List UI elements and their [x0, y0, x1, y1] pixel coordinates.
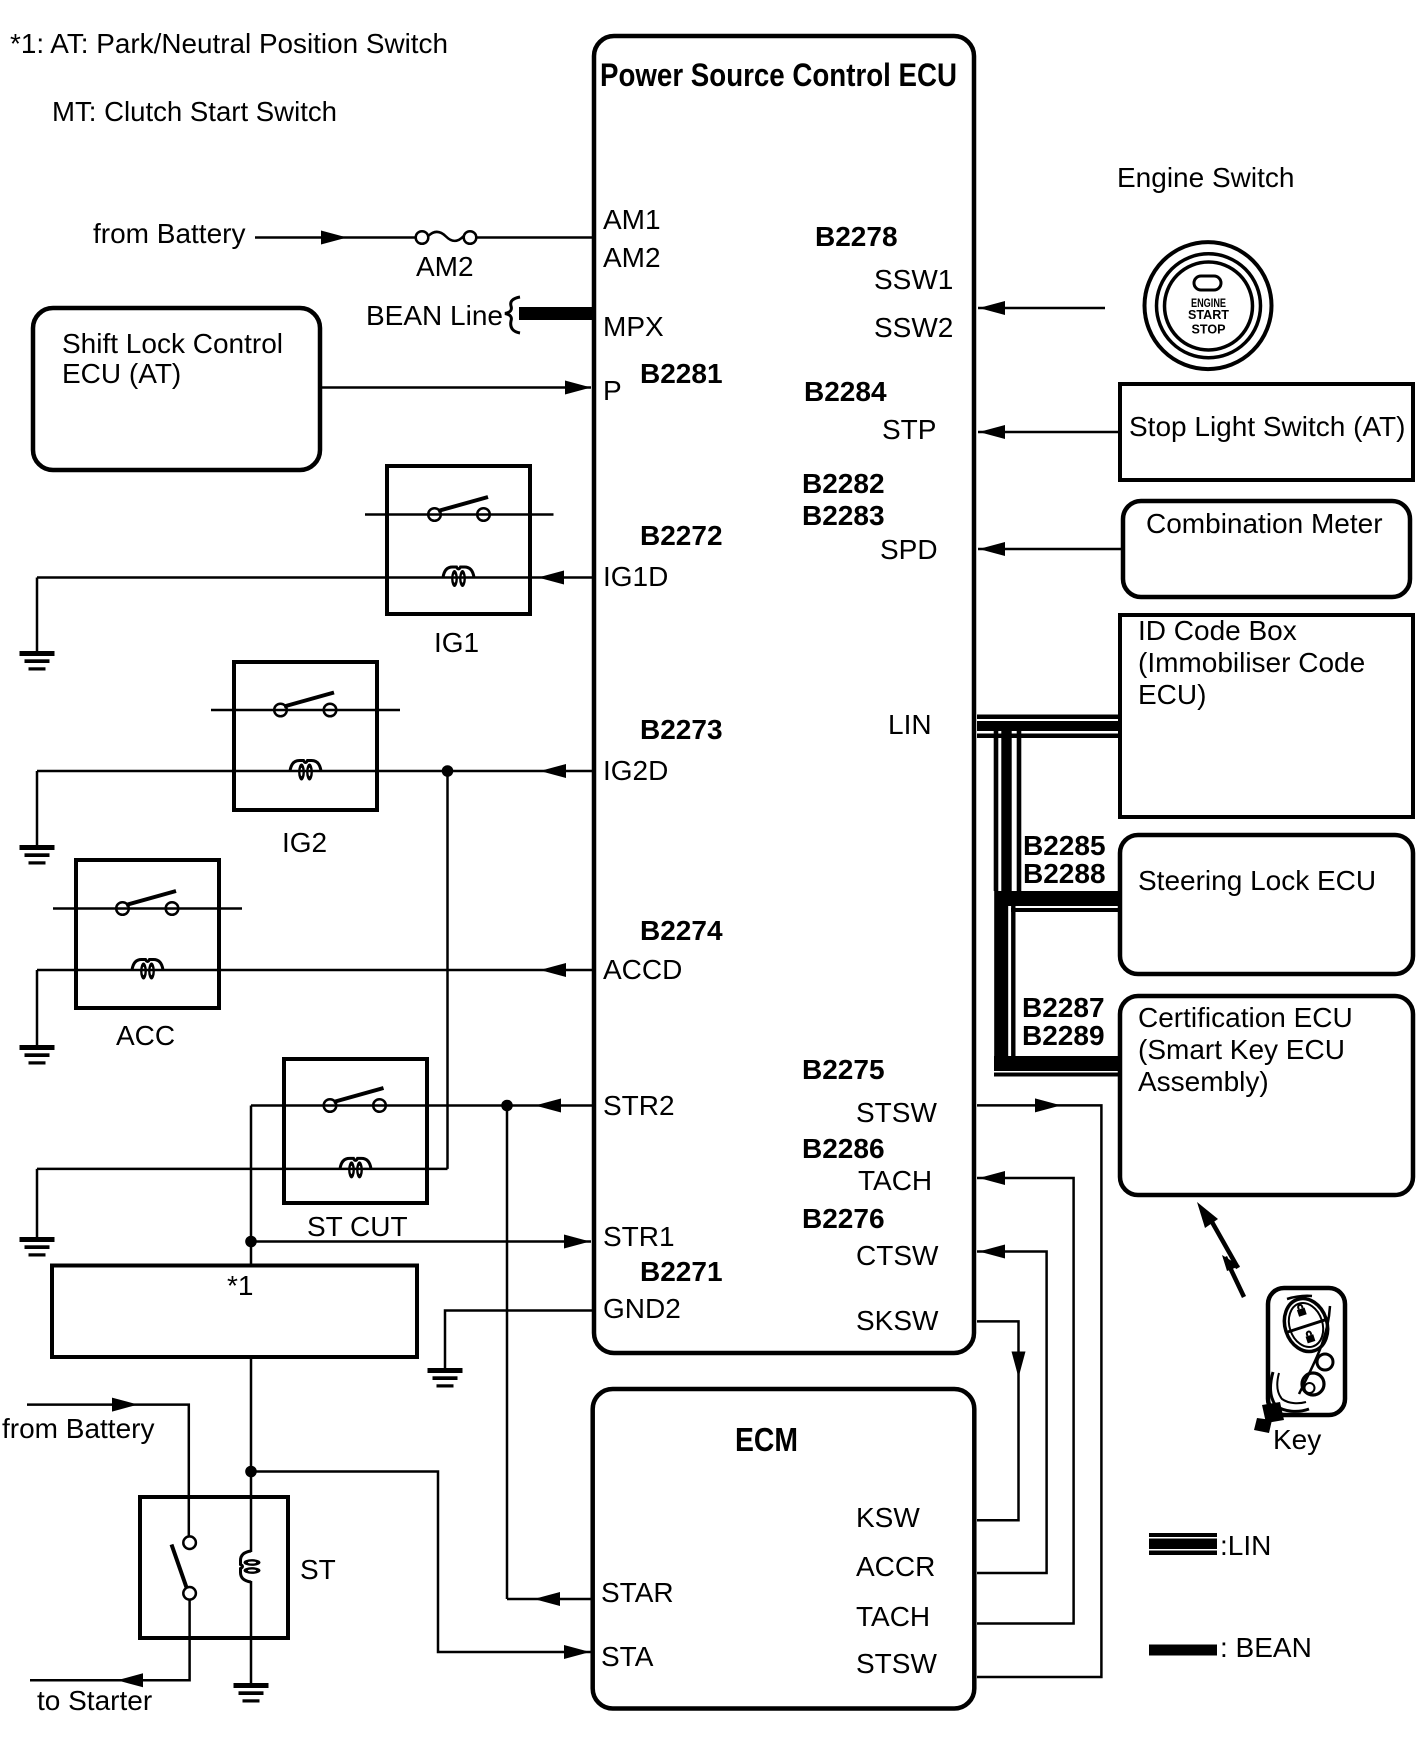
arrow STP [979, 425, 1005, 439]
ground GND2 [428, 1368, 463, 1388]
arrow STR2 [535, 1099, 561, 1113]
wire STP [978, 431, 1120, 434]
svg-text:B2285: B2285 [1023, 830, 1106, 861]
LIN bus vertical trunk [994, 721, 1022, 1071]
arrow STA [564, 1645, 590, 1659]
svg-text:STAR: STAR [601, 1577, 674, 1608]
wire to ground ST CUT [36, 1169, 39, 1237]
svg-text:Power Source Control ECU: Power Source Control ECU [600, 57, 957, 93]
svg-text:B2281: B2281 [640, 358, 723, 389]
coil IG2 [290, 761, 321, 781]
svg-text:B2276: B2276 [802, 1203, 885, 1234]
svg-text:LIN: LIN [888, 709, 932, 740]
wire IG1D [37, 576, 594, 579]
wire P [320, 386, 591, 389]
svg-text:*1: *1 [227, 1270, 253, 1301]
svg-text:(Smart Key ECU: (Smart Key ECU [1138, 1034, 1345, 1065]
svg-text:MT: Clutch Start Switch: MT: Clutch Start Switch [52, 96, 337, 127]
ID Code Box (Immobiliser Code ECU) [1120, 615, 1413, 817]
svg-text:START: START [1188, 308, 1229, 322]
arrow SSW [979, 301, 1005, 315]
arrow IG2D [540, 764, 566, 778]
svg-text:B2287: B2287 [1022, 992, 1105, 1023]
svg-text:SPD: SPD [880, 534, 938, 565]
svg-text:BEAN Line: BEAN Line [366, 300, 503, 331]
svg-text:B2273: B2273 [640, 714, 723, 745]
wire IG2D drop to ST CUT coil [446, 771, 449, 1169]
svg-text::LIN: :LIN [1220, 1530, 1271, 1561]
node STR1 junction [245, 1236, 257, 1248]
svg-text:IG1: IG1 [434, 627, 479, 658]
wire SSW [978, 307, 1105, 310]
legend BEAN symbol [1149, 1645, 1217, 1656]
svg-text:Stop Light Switch (AT): Stop Light Switch (AT) [1129, 411, 1405, 442]
svg-text:ACC: ACC [116, 1020, 175, 1051]
wire ACCD [37, 969, 594, 972]
wire to ground IG1 [36, 578, 39, 652]
coil ST CUT [340, 1158, 371, 1178]
svg-text:ST CUT: ST CUT [307, 1211, 408, 1242]
fuse AM2 [416, 231, 429, 244]
svg-text:B2288: B2288 [1023, 858, 1106, 889]
wire ST coil to ground [250, 1581, 253, 1683]
svg-text:B2283: B2283 [802, 500, 885, 531]
ECU U1: Power Source Control ECU box [594, 36, 974, 1353]
LIN bus branch to Steering Lock ECU [1008, 891, 1120, 912]
wire CTSW to ACCR [977, 1252, 1047, 1574]
node STR2 junction [501, 1100, 513, 1112]
wire STR2 [251, 1104, 592, 1107]
BEAN bus to MPX [519, 307, 594, 320]
svg-text:Combination Meter: Combination Meter [1146, 508, 1383, 539]
svg-text:IG2D: IG2D [603, 755, 668, 786]
svg-text:GND2: GND2 [603, 1293, 681, 1324]
svg-text:ST: ST [300, 1554, 336, 1585]
arrow STR1 [564, 1235, 590, 1249]
svg-text:B2284: B2284 [804, 376, 887, 407]
svg-text:B2272: B2272 [640, 520, 723, 551]
wire STAR to STR2 junction vertical [506, 1106, 509, 1600]
arrow IG1D [538, 571, 564, 585]
svg-text:STOP: STOP [1192, 323, 1226, 337]
svg-text:STSW: STSW [856, 1648, 937, 1679]
svg-text:AM2: AM2 [603, 242, 661, 273]
relay ST CUT [284, 1059, 427, 1203]
svg-text:B2282: B2282 [802, 468, 885, 499]
svg-text:B2271: B2271 [640, 1256, 723, 1287]
svg-text:from Battery: from Battery [93, 218, 245, 249]
relay ST [140, 1497, 288, 1638]
svg-text:KSW: KSW [856, 1502, 920, 1533]
wire SPD [978, 548, 1123, 551]
wire IG2D [37, 770, 594, 773]
svg-text:STP: STP [882, 414, 936, 445]
svg-text:B2274: B2274 [640, 915, 723, 946]
svg-text:TACH: TACH [856, 1601, 930, 1632]
svg-text:B2278: B2278 [815, 221, 898, 252]
key fob [1254, 1288, 1345, 1433]
svg-text:MPX: MPX [603, 311, 664, 342]
ECM box [593, 1389, 975, 1709]
svg-text:AM1: AM1 [603, 204, 661, 235]
wire *1 box to ST node [250, 1357, 253, 1472]
wire STR1 [251, 1240, 591, 1243]
svg-text:STA: STA [601, 1641, 654, 1672]
svg-text:Assembly): Assembly) [1138, 1066, 1269, 1097]
wireless lightning arrow [1197, 1202, 1244, 1297]
arrow to Starter [117, 1673, 143, 1687]
svg-text:SSW2: SSW2 [874, 312, 953, 343]
relay IG2 [211, 662, 400, 810]
svg-text:ACCD: ACCD [603, 954, 682, 985]
ground ST CUT [20, 1237, 55, 1257]
wire STR2 to STR1 vertical [250, 1106, 253, 1266]
wire to Starter [30, 1599, 190, 1680]
Steering Lock ECU box [1120, 835, 1413, 974]
Certification ECU (Smart Key ECU Assembly) box [1120, 996, 1413, 1195]
svg-text:CTSW: CTSW [856, 1240, 939, 1271]
arrow battery bottom [112, 1398, 138, 1412]
svg-text:B2286: B2286 [802, 1133, 885, 1164]
wire to ground IG2 [36, 771, 39, 845]
svg-text:to Starter: to Starter [37, 1685, 152, 1716]
arrow SPD [979, 542, 1005, 556]
coil ACC [132, 960, 163, 980]
arrow on battery wire [321, 231, 347, 245]
wire TACH loop to ECM [977, 1178, 1074, 1624]
svg-text:from Battery: from Battery [2, 1413, 154, 1444]
Stop Light Switch (AT) box [1120, 384, 1413, 480]
ground IG2 [20, 845, 55, 865]
coil IG1 [443, 567, 474, 587]
wire ST CUT coil to IG2D drop [37, 1168, 448, 1171]
svg-text:STR2: STR2 [603, 1090, 675, 1121]
arrow STSW [1035, 1098, 1061, 1112]
svg-text:ACCR: ACCR [856, 1551, 935, 1582]
arrow STAR [534, 1592, 560, 1606]
svg-text:Engine Switch: Engine Switch [1117, 162, 1294, 193]
coil ST [241, 1551, 261, 1582]
switch *1 box (Park/Neutral or Clutch Start) [52, 1266, 417, 1358]
ground ST [234, 1683, 269, 1703]
wire STSW loop to ECM [977, 1105, 1101, 1677]
svg-text:AM2: AM2 [416, 251, 474, 282]
svg-text:Key: Key [1273, 1424, 1321, 1455]
svg-text:SSW1: SSW1 [874, 264, 953, 295]
svg-text:B2289: B2289 [1022, 1020, 1105, 1051]
svg-text:SKSW: SKSW [856, 1305, 939, 1336]
Shift Lock Control ECU (AT) box [33, 308, 320, 470]
svg-text:Certification ECU: Certification ECU [1138, 1002, 1353, 1033]
arrow P [565, 381, 591, 395]
svg-text:ECU (AT): ECU (AT) [62, 358, 181, 389]
engine switch SW1 push button [1145, 242, 1272, 369]
LIN bus branch to Certification ECU [994, 1056, 1120, 1077]
svg-text:ECU): ECU) [1138, 679, 1206, 710]
relay ACC [53, 860, 242, 1008]
svg-text:ID Code Box: ID Code Box [1138, 615, 1297, 646]
arrow CTSW [979, 1245, 1005, 1259]
node IG2D junction [442, 765, 454, 777]
relay IG1 [365, 466, 554, 614]
wire from Battery to ST switch [27, 1405, 189, 1537]
svg-text:STR1: STR1 [603, 1221, 675, 1252]
ground ACC [20, 1045, 55, 1065]
svg-text:IG1D: IG1D [603, 561, 668, 592]
svg-text:B2275: B2275 [802, 1054, 885, 1085]
svg-text:STSW: STSW [856, 1097, 937, 1128]
wire from Battery to AM1 [255, 236, 416, 239]
svg-text:ECM: ECM [735, 1421, 798, 1458]
wire to ground ACC [36, 970, 39, 1045]
Combination Meter box [1123, 501, 1410, 597]
svg-text:Shift Lock Control: Shift Lock Control [62, 328, 283, 359]
svg-text:IG2: IG2 [282, 827, 327, 858]
svg-text:TACH: TACH [858, 1165, 932, 1196]
wire GND2 [445, 1311, 592, 1369]
svg-text:*1: AT: Park/Neutral Position: *1: AT: Park/Neutral Position Switch [10, 28, 448, 59]
arrow ACCD [540, 963, 566, 977]
wire STAR [507, 1598, 591, 1601]
wire SKSW to KSW [977, 1321, 1019, 1520]
svg-text:P: P [603, 375, 622, 406]
node ST feed junction [245, 1466, 257, 1478]
ground IG1 [20, 651, 55, 671]
svg-text:(Immobiliser Code: (Immobiliser Code [1138, 647, 1365, 678]
brace [505, 297, 520, 333]
wire junction to ST coil [250, 1472, 253, 1553]
wire STA route [251, 1472, 591, 1653]
svg-text:Steering Lock ECU: Steering Lock ECU [1138, 865, 1376, 896]
legend LIN symbol [1149, 1533, 1217, 1555]
LIN bus from ECU to ID Code Box [977, 715, 1120, 739]
arrow TACH [979, 1171, 1005, 1185]
svg-text:: BEAN: : BEAN [1220, 1632, 1312, 1663]
arrow SKSW [1012, 1352, 1026, 1378]
